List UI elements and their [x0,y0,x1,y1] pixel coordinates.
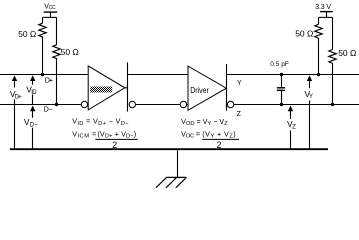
svg-text:VICM =: VICM = [72,129,96,139]
svg-text:VID: VID [26,85,37,96]
svg-text:VOC =: VOC = [181,129,200,139]
svg-text:VCC: VCC [44,3,56,11]
svg-text:VOD = VY − VZ: VOD = VY − VZ [181,117,228,127]
svg-text:Z: Z [237,111,242,118]
svg-text:Driver: Driver [190,85,209,95]
svg-text:VY: VY [305,89,314,100]
svg-text:(VY + VZ): (VY + VZ) [202,129,235,139]
svg-text:50 Ω: 50 Ω [18,29,36,39]
svg-text:50 Ω: 50 Ω [295,28,313,38]
svg-text:2: 2 [217,140,222,150]
svg-text:D−: D− [44,105,53,114]
svg-text:Y: Y [237,80,242,87]
svg-text:VZ: VZ [287,119,296,130]
svg-text:D+: D+ [45,75,53,84]
svg-text:VID = VD+ − VD−: VID = VD+ − VD− [72,117,129,127]
svg-text:0.5 pF: 0.5 pF [270,61,289,68]
svg-text:VD+: VD+ [10,89,22,100]
svg-text:3.3 V: 3.3 V [315,4,331,11]
svg-text:(VD+ + VD−): (VD+ + VD−) [97,129,136,139]
svg-text:2: 2 [112,140,117,150]
svg-text:VD−: VD− [24,117,38,128]
svg-text:50 Ω: 50 Ω [61,47,79,57]
svg-text:50 Ω: 50 Ω [338,48,356,58]
